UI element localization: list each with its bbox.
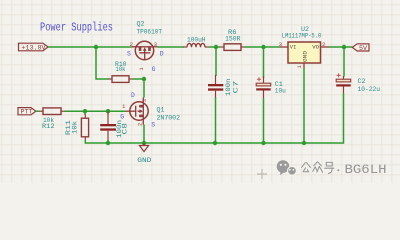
svg-text:C7: C7: [232, 80, 239, 93]
svg-text:5V: 5V: [359, 45, 367, 52]
wire R10 to Q2 gate node: [133, 78, 145, 80]
svg-text:VO: VO: [312, 43, 319, 50]
svg-text:+13.8V: +13.8V: [22, 44, 46, 51]
svg-text:150R: 150R: [225, 36, 241, 43]
resistor R11 (vertical): [81, 115, 88, 141]
watermark separator dot: [337, 169, 339, 171]
svg-text:2: 2: [322, 41, 326, 48]
capacitor C2 (polarized): [336, 73, 351, 93]
svg-text:TP0610T: TP0610T: [137, 28, 163, 35]
wire C1 to ground rail: [263, 98, 265, 143]
svg-text:S: S: [127, 51, 131, 58]
watermark text 公众号 (drawn strokes): [302, 162, 334, 174]
svg-text:G: G: [152, 66, 156, 73]
svg-text:10u: 10u: [275, 88, 286, 95]
junction C1 at rail: [261, 141, 265, 145]
junction Q2 gate / R10 / Q1 drain node: [142, 77, 146, 81]
wire C7 branch down: [215, 47, 217, 76]
svg-text:C8: C8: [122, 123, 129, 135]
junction at 13.8V rail / R10 branch: [94, 45, 98, 49]
svg-text:100uH: 100uH: [187, 37, 206, 44]
svg-text:3: 3: [154, 41, 158, 48]
net flag +13.8V: [19, 43, 49, 51]
wire C2 to ground rail corner: [340, 93, 344, 143]
wire C2 branch down: [343, 47, 345, 77]
svg-text:1: 1: [122, 103, 126, 110]
capacitor C7: [208, 75, 223, 98]
capacitor C8: [100, 111, 116, 140]
svg-text:2N7002: 2N7002: [157, 115, 181, 122]
svg-text:PTT: PTT: [21, 109, 33, 116]
net flag PTT: [18, 108, 36, 116]
origin crosshair: [257, 169, 267, 179]
ground rail wire: [89, 142, 340, 144]
svg-text:Power Supplies: Power Supplies: [40, 22, 113, 35]
junction C8 branch: [106, 109, 110, 113]
svg-text:Q2: Q2: [137, 20, 145, 27]
wire down from rail to R10: [96, 47, 109, 79]
svg-text:GND: GND: [137, 157, 151, 164]
svg-text:100n: 100n: [225, 78, 232, 96]
svg-text:C2: C2: [358, 78, 366, 85]
wire R6 to U2 VI: [245, 46, 281, 48]
resistor R6: [221, 44, 245, 51]
wire R12 to Q1 gate: [65, 110, 127, 112]
wire C8 to ground rail: [107, 140, 109, 143]
wire Q1 source to ground rail: [143, 125, 145, 144]
watermark wechat icon: [277, 160, 297, 175]
junction Q1 source / GND at rail: [142, 141, 146, 145]
junction C8 at rail: [106, 141, 110, 145]
wire R11 to ground rail corner: [85, 140, 89, 143]
wire U2 VO to 5V flag: [329, 46, 352, 48]
svg-text:LM1117MP-5.0: LM1117MP-5.0: [282, 32, 322, 39]
resistor R12: [40, 108, 65, 115]
svg-text:2: 2: [137, 123, 143, 126]
junction C7 branch: [214, 45, 218, 49]
wire Q2 gate node down to Q1 drain: [143, 79, 145, 98]
wire R11 branch down: [84, 111, 86, 115]
transistor Q1 2N7002 (N-MOSFET): [126, 98, 148, 125]
svg-text:GND: GND: [302, 50, 309, 62]
svg-text:1: 1: [297, 65, 303, 68]
transistor Q2 TP0610T (P-MOSFET): [132, 41, 158, 59]
svg-text:D: D: [131, 92, 135, 99]
svg-text:1: 1: [139, 67, 145, 70]
regulator U2 LM1117MP-5.0: [280, 42, 329, 68]
svg-text:10k: 10k: [72, 121, 79, 134]
svg-text:S: S: [151, 121, 155, 128]
wire C7 to ground rail: [215, 97, 217, 143]
junction U2 GND at rail: [302, 141, 306, 145]
junction C1 branch: [261, 45, 265, 49]
wire Q2 drain to inductor: [158, 46, 185, 48]
svg-text:2: 2: [130, 41, 134, 48]
resistor R10: [109, 76, 133, 83]
svg-text:BG6LH: BG6LH: [345, 162, 387, 177]
svg-text:R12: R12: [42, 123, 55, 130]
svg-text:VI: VI: [290, 43, 297, 50]
junction C2 branch: [342, 45, 346, 49]
capacitor C1 (polarized): [256, 76, 271, 98]
wire PTT to R12: [36, 110, 40, 112]
svg-text:G: G: [120, 114, 124, 121]
svg-text:3: 3: [279, 41, 283, 48]
ground symbol: [139, 143, 148, 152]
svg-text:Q1: Q1: [157, 107, 165, 114]
wire +13.8V to Q2 source: [48, 46, 132, 48]
svg-text:D: D: [160, 51, 164, 58]
wire U2 GND down to rail: [303, 68, 305, 143]
junction C7 at rail: [213, 141, 217, 145]
inductor 100uH: [184, 43, 209, 47]
svg-text:10-22u: 10-22u: [358, 86, 381, 93]
svg-text:10k: 10k: [116, 66, 126, 73]
wire inductor to R6: [209, 46, 221, 48]
junction R11 branch: [83, 109, 87, 113]
net flag 5V: [352, 44, 369, 52]
wire C1 branch down: [263, 47, 265, 78]
svg-text:3: 3: [142, 99, 148, 102]
